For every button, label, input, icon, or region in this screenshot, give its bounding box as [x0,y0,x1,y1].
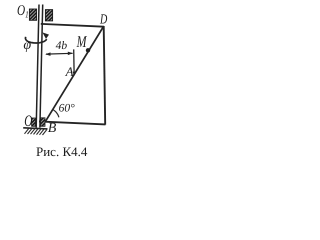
label M [76,32,88,51]
dimension arrowhead right [68,52,73,56]
frame right bar [104,26,106,125]
frame top bar [41,24,104,27]
point M dot [86,48,90,52]
svg-text:60°: 60° [59,103,76,115]
axis rod left line [36,5,39,128]
svg-text:4b: 4b [56,40,68,52]
bottom bearing left block [32,118,36,126]
svg-text:Рис. К4.4: Рис. К4.4 [36,144,88,159]
svg-text:A: A [65,64,74,79]
label O1 [17,3,29,21]
bottom bearing right block [41,118,45,127]
frame bottom bar [39,121,106,124]
ground hatching [25,128,47,135]
svg-text:B: B [48,121,57,136]
extension arrowhead at A [73,72,77,76]
ground line [23,128,47,129]
svg-text:M: M [76,32,88,51]
top bearing left block [29,9,36,20]
phi arrowhead [42,32,49,39]
extension line to A [73,49,75,72]
angle arc 60 [53,110,59,118]
svg-text:φ: φ [23,38,31,53]
label D [99,12,107,27]
phi rotation arc [25,37,46,43]
axis rod right line [40,5,43,128]
dimension line 4b [46,52,73,55]
label O [24,113,32,130]
top bearing right block [45,10,52,21]
diagonal chute BD [46,27,104,121]
svg-text:D: D [99,12,107,27]
dimension arrowhead left [45,52,50,56]
